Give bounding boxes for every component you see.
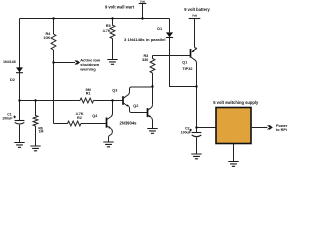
svg-text:100uF: 100uF xyxy=(2,117,13,121)
svg-text:4.7K: 4.7K xyxy=(103,29,111,33)
node Q3 base xyxy=(111,99,113,101)
resistor R3 xyxy=(142,54,155,73)
svg-text:to RPi: to RPi xyxy=(276,128,287,132)
ground (Q4) xyxy=(103,142,113,147)
wire Q1 base xyxy=(153,55,190,57)
svg-text:10K: 10K xyxy=(43,36,50,40)
power symbol Vdd wall wart xyxy=(139,0,147,18)
diode D2 xyxy=(3,60,23,82)
svg-text:5 volt switching supply: 5 volt switching supply xyxy=(213,100,259,105)
transistor Q2 xyxy=(133,104,152,128)
svg-text:100uF: 100uF xyxy=(181,131,192,135)
wire R4 down xyxy=(53,50,55,124)
resistor R4 xyxy=(43,19,56,51)
wire supply output xyxy=(251,127,267,129)
arrow power output xyxy=(268,124,288,132)
svg-text:Q2: Q2 xyxy=(133,104,138,108)
svg-text:3 1N4148s in parallel: 3 1N4148s in parallel xyxy=(124,38,166,42)
transistor Q1 xyxy=(182,48,197,127)
ground (C1) xyxy=(14,143,24,148)
wire left branch xyxy=(19,19,21,121)
wire rail to supply xyxy=(197,127,217,129)
node left-mid xyxy=(18,99,20,101)
ground (supply) xyxy=(228,162,238,167)
svg-text:D1: D1 xyxy=(157,27,162,31)
wire mid horizontal node xyxy=(20,100,81,102)
svg-text:1M: 1M xyxy=(39,130,44,134)
svg-text:2N3904s: 2N3904s xyxy=(120,120,138,125)
svg-text:D2: D2 xyxy=(10,78,15,82)
wire R6 to ground xyxy=(35,126,37,146)
node rail-Vdd xyxy=(141,17,143,19)
svg-text:TIP32: TIP32 xyxy=(182,67,192,71)
capacitor C1 xyxy=(2,113,24,143)
wire R5 to ground xyxy=(112,39,114,60)
capacitor C2 xyxy=(181,127,202,154)
diode D1 xyxy=(157,19,173,38)
wire R2 to Q4 base xyxy=(81,123,106,125)
svg-text:9 volt battery: 9 volt battery xyxy=(184,7,210,12)
svg-text:330: 330 xyxy=(142,58,148,62)
wire shutdown tap xyxy=(54,62,76,64)
svg-text:Q3: Q3 xyxy=(112,88,117,92)
svg-text:Vdd: Vdd xyxy=(192,14,198,18)
ground (R5) xyxy=(107,60,117,65)
svg-text:Q4: Q4 xyxy=(92,114,98,118)
resistor R2 xyxy=(54,112,84,126)
ground (R6) xyxy=(30,146,40,151)
svg-text:Q1: Q1 xyxy=(182,60,187,64)
wire D1 to rail xyxy=(170,38,197,87)
svg-text:R2: R2 xyxy=(77,116,82,120)
svg-text:warning: warning xyxy=(79,67,96,72)
power symbol Vdd battery xyxy=(189,14,201,49)
svg-text:9 volt wall wart: 9 volt wall wart xyxy=(105,4,135,9)
transistor Q3 xyxy=(112,87,152,113)
wire R1 to Q3 base xyxy=(94,100,123,102)
node R6 top xyxy=(34,99,36,101)
node supply input xyxy=(195,126,197,128)
node R3 bottom xyxy=(151,85,153,87)
ground (C2) xyxy=(191,154,201,159)
node shutdown tap xyxy=(52,61,54,63)
svg-text:1N4148: 1N4148 xyxy=(3,60,16,64)
svg-text:Vdd: Vdd xyxy=(140,0,146,4)
wire R3 down xyxy=(152,73,154,105)
wire top rail xyxy=(20,18,170,20)
ground (Q2) xyxy=(147,129,157,134)
node rail-R4 xyxy=(52,17,54,19)
resistor R1 xyxy=(80,88,94,103)
node rail-R5 xyxy=(111,17,113,19)
arrow shutdown warning xyxy=(75,58,101,72)
wire supply ground xyxy=(233,144,235,162)
resistor R5 xyxy=(103,19,115,39)
switching supply box xyxy=(213,100,259,143)
resistor R6 xyxy=(33,101,43,134)
svg-text:R5: R5 xyxy=(106,24,111,28)
transistor Q4 xyxy=(92,101,112,142)
node D1 rail xyxy=(195,85,197,87)
svg-text:R1: R1 xyxy=(86,92,91,96)
